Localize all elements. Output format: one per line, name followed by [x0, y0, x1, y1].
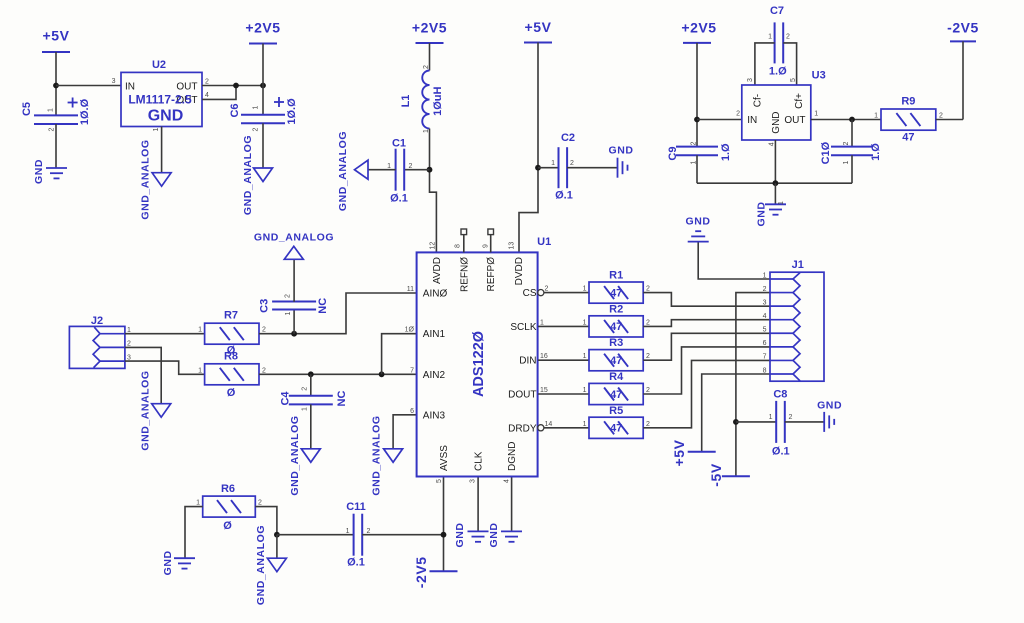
svg-text:47: 47	[610, 423, 622, 435]
capacitor C5 10.0 polarized	[21, 98, 91, 169]
svg-text:GND: GND	[609, 145, 634, 157]
junction AIN1 tap	[379, 371, 385, 377]
capacitor C9 1.0	[667, 141, 732, 183]
capacitor C7 1.0 (flying cap)	[768, 5, 790, 78]
svg-text:4: 4	[205, 92, 209, 99]
svg-text:C1Ø: C1Ø	[820, 141, 832, 164]
resistor R4 47	[583, 371, 650, 405]
power +5V (input rail)	[42, 28, 70, 53]
svg-text:REFPØ: REFPØ	[486, 257, 497, 292]
wire J1 pin1 to GND	[698, 242, 770, 279]
wire J2 pin3 to R8	[125, 361, 205, 374]
wire CS to R1	[544, 292, 589, 294]
gnd-analog triangle (C6)	[242, 135, 273, 215]
svg-text:R1: R1	[609, 270, 623, 282]
capacitor C11 0.1	[346, 501, 371, 569]
svg-text:IN: IN	[125, 82, 135, 93]
power -2V5 (bottom)	[413, 556, 458, 588]
svg-text:+2V5: +2V5	[245, 20, 280, 36]
svg-text:2: 2	[409, 163, 413, 170]
svg-text:OUT: OUT	[784, 115, 805, 126]
gnd-analog triangle (C1, pointing left)	[337, 131, 368, 211]
svg-text:5: 5	[790, 78, 797, 82]
capacitor C8 0.1	[769, 389, 793, 458]
power +2V5 (U3 in)	[681, 20, 716, 43]
wire AVSS pin5 down	[443, 477, 445, 572]
no-connect stub REFN0 pin8	[461, 229, 467, 252]
wire C11 left	[277, 534, 354, 536]
svg-text:1: 1	[346, 528, 350, 535]
svg-text:ADS122Ø: ADS122Ø	[471, 331, 487, 397]
svg-text:1: 1	[583, 421, 587, 428]
svg-text:2: 2	[258, 499, 262, 506]
resistor R6 0	[196, 483, 262, 532]
svg-text:+2V5: +2V5	[412, 20, 447, 36]
power +5V (J1 pin8)	[671, 439, 716, 466]
svg-text:GND: GND	[817, 400, 842, 412]
wire C1 to gnd-analog	[368, 169, 396, 171]
svg-text:GND_ANALOG: GND_ANALOG	[254, 232, 334, 244]
svg-text:1: 1	[769, 414, 773, 421]
ground GND (DGND)	[488, 523, 522, 548]
svg-text:2: 2	[262, 367, 266, 374]
resistor R3 47	[583, 337, 650, 371]
svg-text:2: 2	[205, 79, 209, 86]
svg-text:1: 1	[285, 311, 292, 315]
svg-text:1: 1	[763, 272, 767, 279]
svg-text:DGND: DGND	[507, 442, 518, 471]
svg-text:R8: R8	[224, 350, 238, 362]
bubble CS pin2	[538, 290, 544, 296]
svg-text:5: 5	[763, 327, 767, 334]
capacitor C1 0.1	[387, 138, 412, 205]
junction U2 pin4/pin2	[233, 83, 239, 89]
svg-text:GND_ANALOG: GND_ANALOG	[140, 139, 152, 219]
svg-text:1: 1	[874, 113, 878, 120]
svg-text:R6: R6	[221, 483, 235, 495]
wire DGND pin4 to GND	[511, 477, 513, 532]
resistor R7 0	[198, 310, 266, 357]
svg-text:1: 1	[843, 160, 850, 164]
svg-text:Ø: Ø	[223, 520, 232, 532]
svg-text:2: 2	[736, 111, 740, 118]
inductor L1 10uH	[400, 65, 444, 133]
svg-text:3: 3	[470, 479, 477, 483]
svg-text:2: 2	[646, 421, 650, 428]
svg-text:2: 2	[789, 414, 793, 421]
svg-text:C11: C11	[346, 501, 366, 513]
svg-text:2: 2	[763, 286, 767, 293]
svg-text:+5V: +5V	[43, 28, 70, 44]
svg-text:2: 2	[253, 127, 260, 131]
svg-text:J2: J2	[91, 315, 103, 327]
svg-text:2: 2	[939, 113, 943, 120]
wire R7 out to AIN0 pin11	[259, 293, 417, 334]
svg-text:+5V: +5V	[525, 19, 552, 35]
svg-text:2: 2	[423, 65, 430, 69]
svg-text:GND_ANALOG: GND_ANALOG	[337, 131, 349, 211]
power -5V	[708, 463, 750, 487]
junction AVSS/C11	[441, 532, 447, 538]
svg-text:AIN2: AIN2	[423, 370, 446, 381]
svg-text:47: 47	[610, 287, 622, 299]
svg-text:DRDY: DRDY	[508, 423, 537, 434]
svg-text:DVDD: DVDD	[514, 257, 525, 285]
svg-text:47: 47	[610, 389, 622, 401]
svg-text:1: 1	[691, 160, 698, 164]
svg-text:GND: GND	[756, 202, 768, 227]
svg-text:LM1117-2.5: LM1117-2.5	[128, 93, 192, 107]
power +5V (DVDD)	[524, 19, 552, 43]
ground GND (C8)	[817, 400, 842, 432]
resistor R9 47	[874, 96, 943, 144]
wire J1 pin2 to -5V rail	[736, 293, 770, 477]
svg-text:2: 2	[570, 160, 574, 167]
svg-text:R4: R4	[609, 371, 624, 383]
power +2V5 (U2 output)	[245, 20, 280, 44]
svg-text:1: 1	[583, 319, 587, 326]
svg-text:2: 2	[646, 319, 650, 326]
svg-text:AIN3: AIN3	[423, 410, 446, 421]
ground GND (R6)	[162, 550, 195, 575]
junction +5V/C2	[535, 165, 541, 171]
svg-text:13: 13	[509, 242, 516, 250]
svg-text:2: 2	[843, 141, 850, 145]
wire C8 right to GND	[785, 421, 824, 423]
svg-text:47: 47	[902, 132, 914, 144]
junction U3 IN/C9	[694, 117, 700, 123]
svg-text:1: 1	[583, 286, 587, 293]
ground GND (C5)	[33, 159, 67, 184]
svg-text:Ø.1: Ø.1	[347, 557, 365, 569]
svg-text:Ø: Ø	[227, 387, 236, 399]
svg-text:OUT: OUT	[176, 82, 197, 93]
svg-text:U2: U2	[152, 59, 166, 71]
svg-text:2: 2	[302, 387, 309, 391]
svg-text:C7: C7	[770, 5, 784, 17]
wire U2 OUT pin4	[202, 86, 236, 100]
svg-text:6: 6	[763, 340, 767, 347]
junction +5V/C5/U2-IN	[53, 83, 59, 89]
regulator U2 LM1117-2.5	[112, 59, 209, 131]
capacitor C10 1.0	[820, 120, 882, 184]
svg-text:11: 11	[407, 286, 414, 293]
svg-text:1: 1	[48, 108, 55, 112]
svg-text:DIN: DIN	[519, 356, 536, 367]
svg-text:47: 47	[610, 355, 622, 367]
svg-text:2: 2	[545, 286, 549, 293]
svg-text:SCLK: SCLK	[510, 322, 536, 333]
wire L1 to AVDD pin12	[430, 129, 437, 253]
svg-text:NC: NC	[317, 298, 329, 314]
svg-text:1: 1	[814, 111, 818, 118]
svg-text:R7: R7	[224, 310, 238, 322]
svg-text:GND: GND	[686, 216, 711, 228]
svg-text:GND: GND	[148, 108, 184, 125]
svg-text:1.Ø: 1.Ø	[720, 143, 732, 161]
wire R1 to J1	[643, 293, 770, 307]
wire R6 pin1 to GND	[185, 507, 203, 558]
svg-text:2: 2	[691, 141, 698, 145]
wire C2 to GND	[567, 167, 618, 169]
svg-text:C1: C1	[392, 138, 406, 150]
svg-text:1: 1	[551, 160, 555, 167]
gnd-analog triangle (R6)	[255, 525, 286, 605]
svg-text:Ø.1: Ø.1	[390, 193, 408, 205]
svg-text:1Ø.Ø: 1Ø.Ø	[79, 98, 91, 125]
svg-text:1: 1	[196, 499, 200, 506]
capacitor C4 NC	[280, 374, 348, 449]
svg-text:C3: C3	[258, 299, 270, 313]
svg-text:1: 1	[302, 407, 309, 411]
svg-text:3: 3	[763, 299, 767, 306]
svg-text:J1: J1	[792, 259, 804, 271]
svg-text:-5V: -5V	[708, 463, 724, 487]
svg-text:7: 7	[410, 367, 414, 374]
svg-text:2: 2	[786, 34, 790, 41]
svg-text:1: 1	[768, 34, 772, 41]
wire U2 OUT pin2 to +2V5 rail	[202, 85, 263, 87]
svg-text:GND: GND	[33, 159, 45, 184]
capacitor C3 NC	[258, 259, 329, 333]
resistor R8 0	[198, 350, 266, 399]
junction R8/C4	[308, 371, 314, 377]
svg-text:+2V5: +2V5	[681, 20, 716, 36]
svg-text:GND_ANALOG: GND_ANALOG	[139, 370, 151, 450]
wire CLK pin3 to GND	[477, 477, 479, 532]
svg-text:2: 2	[646, 353, 650, 360]
wire R9 to -2V5	[936, 119, 963, 121]
power +2V5 (L1 top)	[412, 20, 447, 44]
svg-text:C5: C5	[21, 102, 33, 116]
wire C7 left to pin3	[755, 43, 775, 85]
wire U2 GND pin1	[161, 127, 163, 173]
svg-text:GND: GND	[771, 111, 782, 133]
svg-text:U3: U3	[812, 70, 826, 82]
svg-text:16: 16	[540, 353, 548, 360]
gnd-analog triangle (AIN3)	[370, 415, 402, 495]
wire C8 left	[736, 421, 776, 423]
resistor R2 47	[583, 303, 650, 337]
svg-text:-2V5: -2V5	[947, 20, 979, 36]
wire R8 out to AIN2 pin7	[259, 373, 417, 375]
wire R3 to J1	[643, 333, 770, 360]
svg-text:1: 1	[778, 201, 785, 205]
bubble DRDY pin14	[538, 425, 544, 431]
junction L1/C1	[427, 167, 433, 173]
wire to U2 IN pin 3	[56, 85, 121, 87]
svg-text:47: 47	[610, 321, 622, 333]
svg-text:+5V: +5V	[671, 439, 687, 466]
wire U3 IN pin2	[697, 119, 742, 121]
wire J2 pin1 to R7	[125, 333, 205, 335]
svg-text:GND: GND	[488, 523, 500, 548]
wire DOUT to R4	[538, 393, 589, 395]
wire J1 pin8 to +5V	[702, 374, 770, 452]
svg-text:5: 5	[436, 479, 443, 483]
svg-text:3: 3	[747, 78, 754, 82]
junction +2V5/C6	[260, 83, 266, 89]
junction -5V/C8	[733, 419, 739, 425]
svg-text:GND_ANALOG: GND_ANALOG	[370, 415, 382, 495]
svg-text:2: 2	[285, 294, 292, 298]
svg-text:REFNØ: REFNØ	[459, 257, 470, 292]
wire DRDY to R5	[544, 427, 589, 429]
svg-text:GND_ANALOG: GND_ANALOG	[242, 135, 254, 215]
no-connect stub REFP0 pin9	[488, 229, 494, 252]
svg-text:1: 1	[540, 319, 544, 326]
svg-text:3: 3	[112, 78, 116, 85]
svg-text:AVDD: AVDD	[432, 257, 443, 284]
junction R6/C11/gnd-analog	[274, 532, 280, 538]
svg-text:IN: IN	[747, 115, 757, 126]
connector J1	[763, 259, 824, 381]
wire +2V5 to C9/U3	[696, 43, 698, 147]
wire C1 to junction	[404, 169, 429, 171]
svg-text:12: 12	[429, 242, 436, 250]
wire AIN3 pin6 to gnd-analog	[393, 415, 417, 449]
svg-text:L1: L1	[400, 95, 412, 108]
wire +5V to C5/U2	[55, 52, 57, 115]
capacitor C6 10.0 polarized	[229, 97, 298, 168]
svg-text:1ØuH: 1ØuH	[432, 86, 444, 115]
junction OUT/C10	[849, 117, 855, 123]
svg-text:DOUT: DOUT	[508, 390, 536, 401]
svg-text:NC: NC	[336, 391, 348, 407]
svg-text:4: 4	[504, 479, 511, 483]
wire +2V5 rail to C6	[262, 44, 264, 115]
svg-text:GND: GND	[162, 550, 174, 575]
junction R7/C3	[291, 331, 297, 337]
charge pump U3	[736, 70, 826, 147]
svg-text:Ø.1: Ø.1	[555, 190, 573, 202]
connector J2	[69, 315, 131, 368]
svg-text:GND_ANALOG: GND_ANALOG	[255, 525, 267, 605]
svg-text:C8: C8	[773, 389, 787, 401]
svg-text:C4: C4	[280, 391, 292, 406]
svg-text:R9: R9	[901, 96, 915, 108]
svg-text:8: 8	[763, 367, 767, 374]
svg-text:C9: C9	[667, 147, 679, 161]
wire SCLK to R2	[538, 325, 589, 327]
gnd-analog triangle (C3, pointing up)	[254, 232, 334, 260]
svg-text:1Ø: 1Ø	[405, 327, 415, 334]
wire AIN1 riser to pin10	[382, 334, 417, 375]
svg-text:AVSS: AVSS	[439, 445, 450, 471]
wire R2 to J1	[643, 320, 770, 327]
svg-text:CS: CS	[523, 288, 537, 299]
svg-text:Ø.1: Ø.1	[772, 446, 790, 458]
svg-text:R3: R3	[609, 337, 623, 349]
wire to C2	[538, 167, 559, 169]
svg-text:14: 14	[545, 421, 553, 428]
svg-text:8: 8	[455, 244, 462, 248]
gnd-analog triangle (J2 pin2)	[139, 370, 170, 450]
wire DIN to R3	[538, 359, 589, 361]
svg-text:CLK: CLK	[474, 451, 485, 471]
wire R5 to J1	[643, 360, 770, 427]
svg-text:1: 1	[198, 327, 202, 334]
svg-text:R2: R2	[609, 303, 623, 315]
svg-text:2: 2	[49, 127, 56, 131]
ground GND (J1 pin1)	[686, 216, 711, 242]
svg-text:U1: U1	[537, 236, 551, 248]
wire C11 right to AVSS	[362, 534, 443, 536]
svg-text:C6: C6	[229, 103, 241, 117]
svg-text:1: 1	[583, 353, 587, 360]
wire to GND symbol	[774, 183, 776, 204]
svg-text:-2V5: -2V5	[413, 556, 429, 588]
svg-text:1Ø.Ø: 1Ø.Ø	[286, 98, 298, 125]
svg-text:1: 1	[583, 387, 587, 394]
svg-text:2: 2	[262, 327, 266, 334]
svg-text:2: 2	[646, 286, 650, 293]
ground GND (CLK)	[454, 523, 489, 548]
svg-text:R5: R5	[609, 405, 623, 417]
wire +5V to DVDD pin13	[519, 43, 538, 253]
svg-text:1: 1	[153, 127, 160, 131]
svg-text:Cf+: Cf+	[794, 93, 805, 109]
resistor R5 47	[583, 405, 650, 439]
svg-text:C2: C2	[561, 132, 575, 144]
resistor R1 47	[583, 270, 650, 304]
svg-text:1: 1	[253, 105, 260, 109]
wire R6 pin2 to junction	[255, 507, 277, 535]
svg-text:1: 1	[198, 367, 202, 374]
wire gnd rail C9-C10	[697, 182, 852, 184]
svg-text:AINØ: AINØ	[423, 289, 448, 300]
capacitor C2 0.1	[551, 132, 575, 202]
power -2V5 (top right)	[947, 20, 979, 120]
wire J2 pin2 to gnd-analog	[125, 347, 161, 403]
svg-text:1.Ø: 1.Ø	[870, 143, 882, 161]
IC U1 ADS1220	[405, 236, 553, 483]
wire U3 OUT pin1 to R9	[811, 119, 881, 121]
svg-text:GND_ANALOG: GND_ANALOG	[289, 415, 301, 495]
junction gnd rail	[773, 180, 779, 186]
wire C7 right to pin5	[783, 43, 796, 85]
svg-text:15: 15	[540, 387, 548, 394]
wire to gnd-analog	[276, 535, 278, 559]
svg-text:1.Ø: 1.Ø	[769, 66, 787, 78]
wire R4 to J1	[643, 347, 770, 394]
svg-text:6: 6	[410, 408, 414, 415]
wire +2V5 to L1	[429, 43, 431, 71]
svg-text:Cf-: Cf-	[752, 94, 763, 107]
svg-text:AIN1: AIN1	[423, 329, 446, 340]
svg-text:7: 7	[763, 354, 767, 361]
gnd-analog triangle (C4)	[289, 415, 320, 495]
svg-text:4: 4	[763, 313, 767, 320]
svg-text:9: 9	[482, 244, 489, 248]
wire U3 GND pin4	[774, 140, 776, 183]
ground GND (U3)	[756, 201, 787, 227]
gnd-analog triangle (U2)	[140, 139, 172, 219]
ground GND (C2)	[609, 145, 634, 178]
svg-text:GND: GND	[454, 523, 466, 548]
svg-text:2: 2	[646, 387, 650, 394]
